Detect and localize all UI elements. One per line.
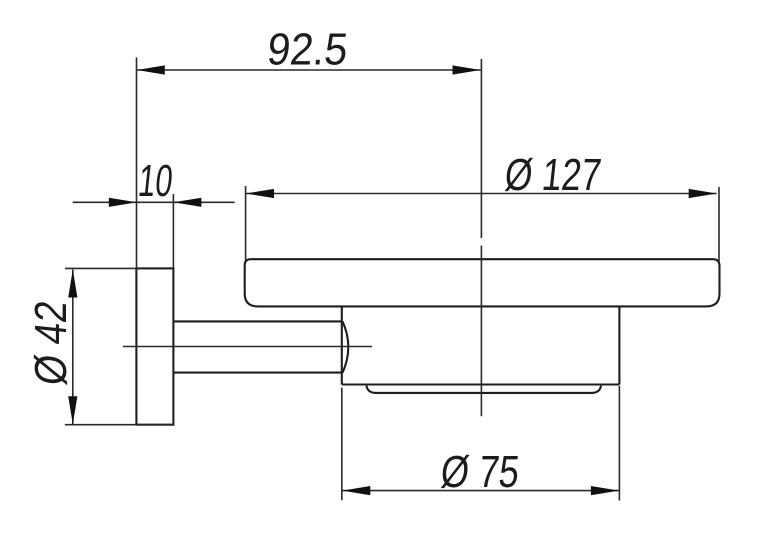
centerline of dish (vertical) xyxy=(480,59,482,416)
centerline of arm (horizontal) xyxy=(123,346,372,348)
svg-text:Ø 75: Ø 75 xyxy=(438,446,521,497)
extension line right face of plate xyxy=(172,194,174,268)
extension line holder left xyxy=(341,388,343,501)
extension line dish left xyxy=(245,186,247,262)
dimension line 10 xyxy=(73,201,235,203)
arrow D75 right xyxy=(591,486,619,495)
extension line dish right xyxy=(718,187,720,262)
arrow D75 left xyxy=(342,486,370,495)
dimension line D75 xyxy=(342,490,619,492)
svg-text:Ø 42: Ø 42 xyxy=(25,298,76,387)
arrow D127 right xyxy=(689,189,717,198)
wall plate xyxy=(136,268,173,424)
holder ring bottom xyxy=(342,383,620,385)
arrow 10 left (outside, points right) xyxy=(109,198,137,207)
arrow D42 bottom xyxy=(68,396,77,424)
arm-holder junction arc xyxy=(343,321,349,372)
dimension line D127 xyxy=(246,193,717,195)
svg-text:Ø 127: Ø 127 xyxy=(502,149,603,200)
arrow 92.5 left xyxy=(137,65,165,74)
arrow 10 right (outside, points left) xyxy=(173,198,201,207)
dimension line 92.5 xyxy=(137,69,481,71)
soap dish body xyxy=(245,259,720,306)
extension line left face of plate xyxy=(136,57,138,268)
holder ring right edge xyxy=(618,306,620,384)
extension line holder right xyxy=(618,386,620,501)
svg-text:92.5: 92.5 xyxy=(265,24,350,75)
extension line plate top (for D42) xyxy=(65,267,136,269)
extension line plate bottom (for D42) xyxy=(65,424,173,426)
arrow D127 left xyxy=(246,189,274,198)
dimension line D42 xyxy=(72,270,74,425)
arrow D42 top xyxy=(68,270,77,298)
glass insert bottom xyxy=(367,386,602,393)
holder ring left edge xyxy=(341,306,343,384)
svg-text:10: 10 xyxy=(136,155,175,206)
arm bottom line xyxy=(174,372,343,374)
arm top line xyxy=(174,320,343,322)
arrow 92.5 right xyxy=(453,65,481,74)
